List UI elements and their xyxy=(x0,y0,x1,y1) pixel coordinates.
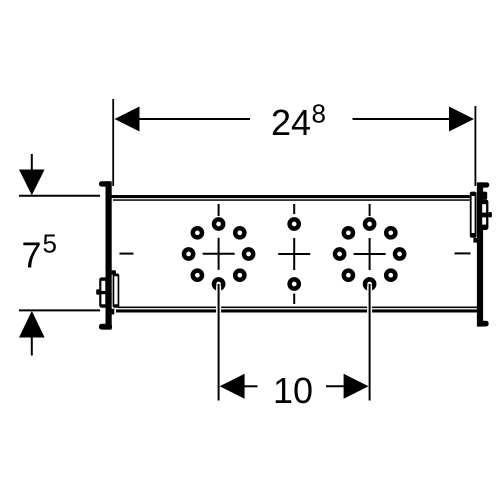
dim 7.5 bottom line xyxy=(19,309,100,311)
dim 24.8 right arrowhead xyxy=(449,107,474,132)
rail top outer edge xyxy=(111,195,470,198)
svg-text:8: 8 xyxy=(312,98,326,128)
rail bottom outer edge xyxy=(116,309,477,312)
right pattern hole lower-left xyxy=(344,271,353,280)
right pattern hole left xyxy=(335,249,344,258)
svg-text:7: 7 xyxy=(22,235,42,276)
left screw body xyxy=(99,277,107,307)
left leader line xyxy=(218,284,220,401)
right clamp foot xyxy=(473,238,478,243)
left pattern hole top xyxy=(214,219,223,228)
left leader halo xyxy=(216,286,221,314)
left hole pattern cross xyxy=(203,238,235,270)
dim 10 line left segment xyxy=(244,385,258,387)
right leader line xyxy=(369,284,371,401)
left pattern hole right xyxy=(244,249,253,258)
left pattern hole lower-left xyxy=(193,271,202,280)
left pattern hole left xyxy=(184,249,193,258)
right pattern hole upper-left xyxy=(344,228,353,237)
dim 24.8 left arrowhead xyxy=(115,107,140,132)
right bracket bar xyxy=(477,182,483,326)
dim 24.8 left extension line xyxy=(112,99,114,186)
right bracket bottom hook xyxy=(477,321,489,327)
right clamp top bump xyxy=(482,192,487,200)
svg-text:5: 5 xyxy=(43,228,57,258)
right end horizontal centerline dash xyxy=(455,252,471,254)
left clamp foot xyxy=(111,309,114,315)
right bracket top hook xyxy=(477,182,489,187)
left bracket bar xyxy=(106,181,112,329)
rail bottom inner edge xyxy=(118,307,477,309)
left bracket top hook xyxy=(99,181,112,186)
middle pattern centerline dash above xyxy=(293,204,295,214)
dim 10 line right segment xyxy=(326,385,344,387)
dim 7.5 down arrowhead xyxy=(19,170,45,196)
left clamp top bump xyxy=(111,270,116,275)
right pattern hole top xyxy=(365,219,374,228)
left screw tip xyxy=(96,289,100,295)
middle pattern centerline dash below xyxy=(293,294,295,305)
dim 10 right arrowhead xyxy=(344,374,369,399)
dim 24.8 right extension line xyxy=(474,106,476,186)
dim 7.5 top line xyxy=(19,195,100,197)
right leader halo xyxy=(367,286,372,314)
left pattern hole lower-right xyxy=(235,271,244,280)
right pattern hole right xyxy=(395,249,404,258)
left end horizontal centerline dash xyxy=(120,253,134,255)
dim 10 left arrowhead xyxy=(220,374,245,399)
right pattern hole lower-right xyxy=(386,271,395,280)
right hole pattern centerline dash above xyxy=(369,204,371,216)
right pattern hole upper-right xyxy=(386,228,395,237)
middle pattern hole top xyxy=(290,219,299,228)
right screw body xyxy=(480,199,488,230)
dim 7.5 up arrowhead xyxy=(19,311,45,338)
left clamp plate xyxy=(113,274,120,308)
rail top inner edge xyxy=(113,199,470,201)
left hole pattern centerline dash above xyxy=(218,204,220,216)
right clamp plate xyxy=(470,192,477,238)
dim 24.8 line left segment xyxy=(138,118,250,120)
right hole pattern cross xyxy=(354,238,386,270)
left bracket bottom hook xyxy=(99,324,112,330)
left pattern hole bottom xyxy=(214,279,223,288)
dim 7.5 down arrow stem xyxy=(31,154,33,170)
left pattern hole upper-left xyxy=(193,228,202,237)
right pattern hole bottom xyxy=(365,279,374,288)
dim 24.8 line right segment xyxy=(353,118,451,120)
dim 7.5 up arrow stem xyxy=(31,337,33,356)
svg-text:24: 24 xyxy=(271,102,311,143)
middle pattern hole bottom xyxy=(290,279,299,288)
svg-text:10: 10 xyxy=(273,370,313,411)
left pattern hole upper-right xyxy=(235,228,244,237)
right screw tip xyxy=(488,212,492,217)
middle pattern cross xyxy=(278,238,310,270)
